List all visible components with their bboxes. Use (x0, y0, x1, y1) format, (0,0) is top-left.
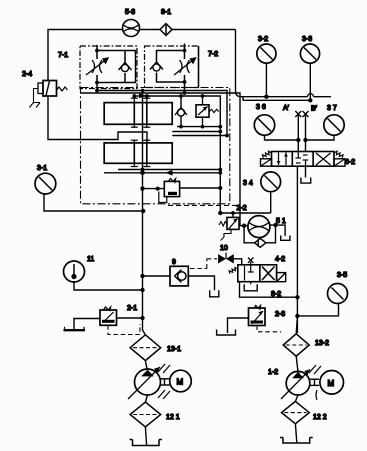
wire valve 4-1 outlet (180, 187, 221, 189)
tank under 2-1 (64, 329, 86, 331)
tank 2 (280, 438, 313, 444)
svg-text:B′: B′ (311, 106, 318, 113)
filter 13-2 (283, 334, 309, 356)
node 7-2 junctions (183, 49, 187, 53)
gauge 3-6 (254, 115, 274, 135)
wire 2-2 to flow meter 5-1 (239, 225, 248, 227)
svg-text:10: 10 (220, 245, 228, 252)
plug x above 4-2 (248, 258, 253, 265)
unloading valve 4-1 (159, 178, 180, 202)
wire left branch down from 2-4 (48, 96, 147, 143)
wire to valve 2-2 (220, 212, 270, 214)
wire filter 12-2 to tank 2 (295, 424, 296, 443)
relief valve 2-2 (219, 217, 239, 240)
tank at check valve 9 outlet (210, 290, 219, 297)
svg-text:3-5: 3-5 (337, 272, 347, 279)
cylinder 1 piston (134, 103, 147, 125)
wire gauge 3-1 to main line (44, 194, 143, 211)
wire P port of 6-2 down (296, 166, 298, 333)
flow control valve 7-2 internals (157, 44, 185, 94)
svg-text:13-1: 13-1 (167, 346, 181, 353)
motor M2 (320, 371, 344, 395)
cylinder 1 body (104, 103, 172, 125)
wire filter 12-1 to tank (145, 427, 146, 445)
svg-text:2-2: 2-2 (237, 205, 247, 212)
gauge 3-5 (297, 284, 347, 316)
wire gauge 3-6 to A line (265, 135, 299, 140)
dash-dot subsystem boundary box (81, 88, 230, 204)
check valve of 7-1 (119, 63, 132, 72)
svg-text:A′: A′ (283, 105, 290, 112)
wire right pump riser taps (296, 316, 297, 334)
tank at 6-2 T port (301, 178, 311, 184)
coupling ticks pump 1-2 (309, 365, 321, 400)
svg-text:8-2: 8-2 (271, 291, 281, 298)
wire right riser from top line (236, 30, 308, 97)
filter 12-1 (130, 402, 161, 427)
wire manifold L3 (134, 96, 220, 213)
node taps on supply rail (264, 95, 268, 99)
svg-text:12 1: 12 1 (166, 414, 180, 421)
svg-text:1-2: 1-2 (268, 369, 278, 376)
wire cylinder bottom manifolds (118, 169, 220, 171)
svg-text:3 6: 3 6 (256, 104, 266, 111)
coupling ticks pump 1-1 (158, 364, 170, 399)
wire filter to pump 1-1 (145, 361, 147, 369)
relief valve 2-4 (38, 81, 68, 97)
wire cluster bottom (177, 126, 220, 128)
svg-text:5 1: 5 1 (276, 218, 286, 225)
wire lower measurement rail (243, 99, 311, 101)
relief valve 2-1 (100, 307, 117, 325)
wire T port of 6-2 to tank (305, 166, 307, 177)
gauge 3-1 (35, 173, 56, 194)
flow meter 5-3 (123, 20, 140, 37)
valve 6-2 left solenoid and spring (261, 151, 272, 166)
svg-text:4-2: 4-2 (275, 256, 285, 263)
valve 4-2 spring (229, 268, 238, 274)
svg-text:3-2: 3-2 (258, 36, 268, 43)
wire 2-1 right to main line (117, 317, 143, 319)
gauge 3-4 (261, 172, 281, 213)
flow control valve 7-1 dashed enclosure (80, 46, 137, 89)
cylinder 2 piston (134, 143, 147, 163)
directional valve 6-2 body (272, 152, 335, 167)
node 7-1 junctions (95, 49, 99, 53)
pump 1-1 (128, 367, 161, 399)
valve 6-2 left box arrows (277, 153, 288, 166)
wire manifold L2 (81, 93, 240, 226)
svg-text:M: M (328, 379, 335, 388)
shaft pump 1-2 to motor (310, 379, 319, 385)
tank under 2-3 (217, 330, 236, 336)
pump 1-2 (281, 370, 310, 400)
wire 2-1 left to tank (74, 319, 100, 331)
pilot dashed line 9 to valve 10 (190, 259, 217, 269)
svg-text:5-3: 5-3 (125, 9, 135, 16)
wire pump 1-2 to filter 12-2 (295, 395, 298, 401)
cylinder 2 body (104, 143, 172, 163)
thermometer 11 (64, 261, 143, 290)
svg-text:3-3: 3-3 (302, 36, 312, 43)
check valve of 7-2 (150, 62, 163, 71)
flow meter 5-1 (248, 216, 270, 238)
label 7-2 (198, 46, 200, 88)
motor M1 (170, 370, 192, 392)
valve 4-2 solenoid (277, 273, 286, 282)
valve 6-2 centre box blocked ports (296, 152, 309, 166)
valve 6-2 right box crossed arrows (316, 153, 331, 165)
svg-text:12 2: 12 2 (313, 414, 327, 421)
check valve 8-2 (255, 238, 266, 247)
check valve 9 (140, 266, 188, 286)
svg-text:8-1: 8-1 (161, 9, 171, 16)
wire 2-3 to tank (228, 318, 249, 333)
node A test line (295, 111, 301, 152)
directional valve 4-2 (238, 265, 277, 282)
flow arrow on manifold (139, 93, 146, 98)
wire cylinder 1 right ports (172, 131, 220, 133)
cylinder 1 port stubs (131, 96, 151, 128)
wire 4-2 return to pump line (240, 282, 298, 298)
svg-text:3 7: 3 7 (327, 105, 337, 112)
pilot dashes from 2-3 (257, 326, 281, 332)
shaft pump 1-1 to motor (161, 379, 170, 385)
shut-off valve 10 (218, 253, 234, 264)
svg-text:13-2: 13-2 (315, 340, 329, 347)
wire check valve 9 outlet to tank (188, 276, 214, 290)
svg-text:2-4: 2-4 (22, 71, 32, 78)
filter 13-1 (130, 330, 161, 361)
gauge 3-7 (324, 115, 344, 135)
svg-text:2-1: 2-1 (127, 305, 137, 312)
wire top supply line (48, 30, 236, 81)
flow control valve 7-1 internals (97, 45, 136, 89)
check valve 8-1 (160, 24, 172, 36)
pressure valve 2-3 (249, 305, 266, 325)
valve 6-2 right solenoid and spring (334, 151, 345, 166)
wire gauge 3-7 to B line (306, 135, 335, 140)
cylinder 2 port stubs (131, 140, 151, 168)
tank 1 (130, 440, 163, 446)
svg-text:11: 11 (87, 256, 94, 263)
svg-text:9: 9 (172, 259, 176, 266)
svg-text:M: M (177, 378, 184, 387)
pilot dashed line from 4-1 (168, 204, 239, 206)
valve 4-2 left box ports (245, 266, 254, 281)
node manifold junctions (95, 89, 204, 98)
check valve over cylinder cluster (175, 96, 187, 127)
wire filter 13-2 to pump 1-2 (296, 356, 298, 372)
pilot drain of 2-4 (30, 89, 41, 108)
gauge 3-2 (257, 44, 276, 97)
wire pump 1-1 to filter 12-1 (145, 395, 147, 402)
node B test line (303, 111, 309, 152)
svg-text:3-1: 3-1 (37, 165, 47, 172)
svg-text:7-1: 7-1 (58, 52, 68, 59)
wire center vertical main line (142, 91, 144, 331)
svg-text:2-3: 2-3 (275, 311, 285, 318)
node A B taps (296, 138, 300, 142)
filter 12-2 (282, 401, 310, 423)
small relief valve over cylinder cluster (196, 96, 219, 127)
tank under valve 4-2 (250, 282, 252, 285)
svg-text:7-2: 7-2 (208, 51, 218, 58)
throttle of 7-2 (174, 58, 196, 75)
wire into valve 4-1 (143, 188, 165, 190)
bypass check valve 8-2 branch (244, 226, 255, 243)
gauge 3-3 (300, 44, 319, 100)
tank under 5-1 outlet (281, 236, 290, 241)
throttle of 7-1 (86, 58, 108, 75)
pilot dashes from 2-1 (108, 324, 140, 335)
wire valve 10 to valve 4-2 (234, 259, 242, 265)
wire 5-1 outlet to tank (270, 225, 285, 236)
wire manifold L1 (97, 91, 227, 136)
svg-text:3 4: 3 4 (243, 180, 253, 187)
svg-text:6-2: 6-2 (345, 159, 355, 166)
flow control valve 7-2 dashed enclosure (145, 46, 199, 88)
